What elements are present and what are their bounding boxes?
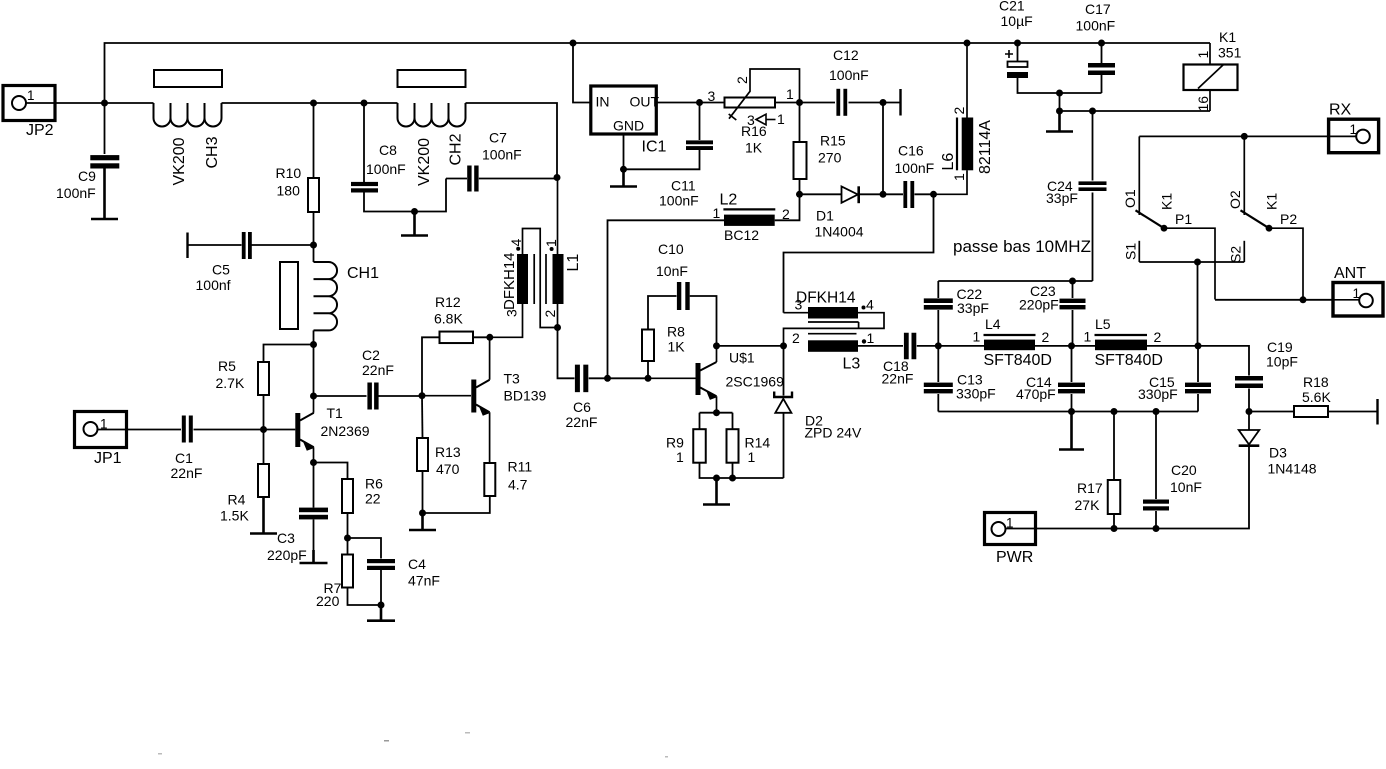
node T1 collector/C2 bbox=[310, 393, 317, 400]
wire C10 to collector node bbox=[690, 296, 717, 346]
inductor L4 SFT840D bbox=[938, 316, 1052, 369]
svg-text:L3: L3 bbox=[843, 356, 861, 373]
resistor R4 bbox=[258, 464, 269, 497]
wire rail to C20 bbox=[1155, 412, 1157, 500]
node C23 top bbox=[1069, 278, 1076, 285]
transistor T1 2N2369 bbox=[264, 396, 370, 463]
svg-text:1: 1 bbox=[973, 329, 981, 345]
svg-text:T3: T3 bbox=[504, 371, 521, 387]
wire C18 right bbox=[917, 345, 939, 347]
node C6/L2wire bbox=[604, 375, 611, 382]
voltage regulator IC1 bbox=[591, 86, 667, 156]
diode D1 1N4004 bbox=[815, 186, 864, 239]
node C19/D3/R18 bbox=[1246, 408, 1253, 415]
svg-text:16: 16 bbox=[1195, 96, 1211, 112]
svg-text:1N4004: 1N4004 bbox=[815, 224, 864, 240]
wire C12 node down to D1 node bbox=[882, 103, 884, 195]
capacitor C1 bbox=[182, 416, 186, 443]
wire node to R5 bbox=[264, 345, 314, 363]
svg-text:C17: C17 bbox=[1085, 1, 1111, 17]
wire OUT to C11 bbox=[699, 103, 701, 141]
wire R13 bottom bbox=[422, 471, 424, 513]
wire R18 right bbox=[1328, 411, 1377, 413]
svg-text:33pF: 33pF bbox=[1046, 190, 1078, 206]
node bus/C21 bbox=[1014, 40, 1021, 47]
wire R12 to collector node bbox=[473, 336, 490, 338]
resistor R6 bbox=[342, 479, 353, 513]
svg-text:100nF: 100nF bbox=[56, 185, 96, 201]
node R15/L2/D1 bbox=[796, 191, 803, 198]
wire to C7 bbox=[446, 178, 467, 180]
svg-text:22nF: 22nF bbox=[566, 414, 598, 430]
wire top supply bus bbox=[105, 43, 1211, 103]
wire C16 node to L3 pin3 bbox=[784, 194, 934, 312]
svg-text:R12: R12 bbox=[435, 294, 461, 310]
ground under C8 bbox=[401, 212, 428, 236]
resistor R9 bbox=[693, 429, 706, 463]
svg-text:4: 4 bbox=[866, 297, 874, 313]
svg-text:C21: C21 bbox=[999, 0, 1025, 14]
node D1/C16 bbox=[880, 191, 887, 198]
node bottom rail ground bbox=[1068, 408, 1075, 415]
svg-text:47nF: 47nF bbox=[408, 573, 440, 589]
wire C24 bottom riser bbox=[1092, 193, 1094, 282]
node bus/IC1 bbox=[570, 40, 577, 47]
svg-text:L2: L2 bbox=[720, 192, 738, 209]
wire to C9 bbox=[104, 103, 106, 154]
wire bus to C17 bbox=[1101, 43, 1103, 63]
wire R17 bottom bbox=[1113, 514, 1115, 529]
capacitor C4 bbox=[367, 559, 395, 563]
svg-text:D3: D3 bbox=[1269, 445, 1287, 461]
wire to R8 node bbox=[608, 377, 649, 379]
resistor R10 bbox=[308, 178, 319, 212]
wire base node to R4 bbox=[263, 430, 265, 465]
node R7/C4/ground bbox=[378, 602, 385, 609]
connector RX bbox=[1329, 102, 1379, 153]
svg-text:IC1: IC1 bbox=[642, 139, 667, 156]
svg-text:82114A: 82114A bbox=[977, 120, 994, 174]
node C7/L1 bbox=[554, 174, 561, 181]
node IC1 gnd/C11 bbox=[620, 166, 627, 173]
wire R8 bottom bbox=[647, 361, 649, 378]
svg-text:1: 1 bbox=[713, 205, 721, 221]
node U$1 emitter bbox=[713, 409, 720, 416]
capacitor C13 bbox=[924, 383, 953, 387]
svg-text:GND: GND bbox=[613, 118, 644, 134]
svg-text:D1: D1 bbox=[816, 208, 834, 224]
capacitor C15 bbox=[1185, 383, 1211, 387]
wire C2 to T3 base node bbox=[379, 395, 423, 397]
node C20 top bbox=[1153, 408, 1160, 415]
svg-text:2: 2 bbox=[542, 310, 558, 318]
wire node to R7 bbox=[347, 538, 349, 555]
svg-text:passe bas 10MHZ: passe bas 10MHZ bbox=[953, 237, 1091, 256]
svg-text:330pF: 330pF bbox=[956, 386, 996, 402]
svg-text:1: 1 bbox=[1084, 329, 1092, 345]
capacitor C5 bbox=[242, 232, 246, 259]
wire R16 node to R15 bbox=[799, 103, 801, 143]
node relay line bbox=[1056, 108, 1063, 115]
capacitor C9 bbox=[90, 155, 119, 160]
ground under IC1 bbox=[610, 169, 637, 186]
node L1 pin2 bbox=[554, 324, 561, 331]
ground under filter bbox=[1059, 412, 1084, 450]
svg-text:100nF: 100nF bbox=[659, 193, 699, 209]
wire C3 to ground bbox=[313, 520, 315, 564]
wire to C8 bbox=[363, 103, 365, 183]
svg-text:R8: R8 bbox=[667, 324, 685, 340]
transformer L3 DFKH14 bbox=[784, 290, 885, 373]
wire L3 node to D2 bbox=[783, 346, 785, 396]
capacitor C17 bbox=[1088, 63, 1115, 68]
wire RX line bbox=[1139, 135, 1328, 137]
capacitor C21 electrolytic bbox=[1005, 50, 1028, 78]
svg-text:C16: C16 bbox=[898, 143, 924, 159]
wire D2 bottom bbox=[783, 413, 785, 478]
inductor L5 SFT840D bbox=[1084, 316, 1163, 369]
connector JP2 bbox=[3, 86, 55, 140]
wire emitter to C3 bbox=[313, 463, 315, 508]
wire ANT line bbox=[1215, 299, 1333, 301]
svg-text:S1: S1 bbox=[1123, 243, 1139, 260]
svg-text:JP2: JP2 bbox=[26, 122, 54, 139]
svg-text:2N2369: 2N2369 bbox=[321, 423, 370, 439]
svg-text:R13: R13 bbox=[435, 444, 461, 460]
svg-text:P2: P2 bbox=[1280, 211, 1297, 227]
ground under C21/C17 bbox=[1046, 111, 1073, 132]
svg-text:K1: K1 bbox=[1159, 193, 1175, 210]
svg-text:SFT840D: SFT840D bbox=[984, 352, 1052, 369]
wire collector rail bbox=[313, 345, 315, 397]
connector PWR bbox=[985, 513, 1036, 567]
node C8 top bbox=[361, 100, 368, 107]
svg-text:270: 270 bbox=[818, 150, 842, 166]
svg-text:2: 2 bbox=[792, 330, 800, 346]
relay contact S2 bbox=[1228, 241, 1245, 263]
svg-text:10nF: 10nF bbox=[656, 263, 688, 279]
svg-text:C6: C6 bbox=[573, 399, 591, 415]
svg-text:220pF: 220pF bbox=[267, 547, 307, 563]
svg-text:5.6K: 5.6K bbox=[1302, 389, 1331, 405]
terminal pin after C12 bbox=[899, 89, 901, 116]
node R13/R11/ground bbox=[419, 510, 426, 517]
svg-text:C11: C11 bbox=[671, 178, 696, 194]
svg-text:1: 1 bbox=[748, 449, 756, 465]
inductor L6 82114A bbox=[934, 43, 995, 194]
svg-text:100nF: 100nF bbox=[482, 147, 522, 163]
capacitor C6 bbox=[575, 365, 580, 393]
svg-text:1.5K: 1.5K bbox=[220, 508, 249, 524]
node R17 top bbox=[1111, 408, 1118, 415]
wire R7 bottom bbox=[348, 588, 382, 606]
svg-text:2: 2 bbox=[734, 76, 750, 84]
svg-text:2: 2 bbox=[1154, 329, 1162, 345]
svg-text:C8: C8 bbox=[379, 142, 397, 158]
capacitor C11 bbox=[686, 140, 713, 144]
svg-text:R4: R4 bbox=[228, 492, 246, 508]
svg-text:R17: R17 bbox=[1077, 480, 1103, 496]
node ANT/P2 bbox=[1300, 296, 1307, 303]
node U$1 collector bbox=[713, 342, 720, 349]
svg-text:CH2: CH2 bbox=[448, 133, 465, 165]
svg-text:R15: R15 bbox=[820, 133, 846, 149]
wire C15 top bbox=[1197, 346, 1199, 382]
wire to terminal bbox=[883, 102, 900, 104]
svg-text:O2: O2 bbox=[1227, 190, 1243, 209]
svg-text:1: 1 bbox=[543, 239, 559, 247]
wire L5 right bbox=[1147, 345, 1198, 347]
node RX/O2 bbox=[1241, 133, 1248, 140]
svg-text:22nF: 22nF bbox=[171, 465, 203, 481]
node bus/L6 bbox=[964, 40, 971, 47]
svg-text:100nF: 100nF bbox=[895, 160, 935, 176]
node T3 base bbox=[419, 392, 426, 399]
inductor CH2 coil bbox=[398, 103, 466, 127]
svg-text:DFKH14: DFKH14 bbox=[501, 252, 518, 310]
wire R8 top to C10 bbox=[648, 296, 677, 330]
wire L2 pin1 down to C6 node bbox=[608, 220, 725, 378]
wire C4 to ground node bbox=[380, 570, 382, 605]
node S line bbox=[1194, 259, 1201, 266]
wire R5 to base node bbox=[263, 395, 265, 430]
wire into CH1 bbox=[313, 245, 315, 262]
ground under R13 bbox=[409, 513, 436, 530]
svg-text:22: 22 bbox=[365, 491, 381, 507]
transistor U$1 2SC1969 bbox=[648, 346, 784, 413]
wire R10 to CH1 bbox=[313, 212, 315, 245]
node R17/PWR bbox=[1111, 525, 1118, 532]
node emitter ground bbox=[713, 475, 720, 482]
node T1 emitter bbox=[310, 459, 317, 466]
node R12/L1/T3 collector bbox=[486, 334, 493, 341]
wire C5 to node bbox=[251, 244, 313, 246]
svg-text:22nF: 22nF bbox=[882, 371, 914, 387]
node R8/base bbox=[645, 375, 652, 382]
svg-text:27K: 27K bbox=[1075, 497, 1101, 513]
wire emitter to R6 bbox=[314, 463, 348, 480]
capacitor C3 bbox=[299, 508, 328, 513]
wire C8 bottom bbox=[364, 179, 446, 212]
svg-text:10pF: 10pF bbox=[1266, 354, 1298, 370]
wire filter top rail bbox=[938, 280, 1092, 282]
inductor L2 BC12 bbox=[713, 192, 791, 244]
wire L3 to C18 bbox=[858, 345, 903, 347]
wire C6 right bbox=[589, 377, 608, 379]
node C24/relay line bbox=[1089, 108, 1096, 115]
resistor R13 bbox=[417, 438, 428, 471]
resistor R7 bbox=[342, 555, 353, 588]
svg-text:180: 180 bbox=[277, 183, 301, 199]
wire S node to main line bbox=[1197, 262, 1199, 346]
svg-text:R11: R11 bbox=[508, 459, 533, 475]
wire C13 top bbox=[937, 346, 939, 382]
resistor R12 bbox=[440, 332, 474, 344]
node C16/L6 bbox=[930, 191, 937, 198]
capacitor C18 bbox=[904, 333, 909, 360]
wire node to R12 bbox=[422, 337, 440, 395]
wire C13 bottom bbox=[937, 394, 939, 412]
wire C22 bottom bbox=[937, 310, 939, 346]
wire to K1 pin16 bbox=[1060, 110, 1211, 112]
wire JP1 to C1 bbox=[127, 429, 182, 431]
svg-text:VK200: VK200 bbox=[171, 137, 188, 185]
svg-text:10µF: 10µF bbox=[1001, 13, 1033, 29]
wire CH2 to C7 node bbox=[466, 103, 558, 178]
node C18/filter bbox=[935, 342, 942, 349]
wire C14 bottom bbox=[1071, 394, 1073, 412]
speck marks bbox=[158, 753, 162, 755]
wire C7 to L1 node bbox=[479, 178, 557, 180]
relay coil K1 bbox=[1184, 29, 1242, 112]
wire R11 bottom to node bbox=[423, 496, 490, 513]
svg-text:R18: R18 bbox=[1303, 374, 1329, 390]
relay contact S1 bbox=[1123, 241, 1140, 262]
svg-text:220pF: 220pF bbox=[1019, 297, 1059, 313]
svg-text:220: 220 bbox=[316, 593, 340, 609]
resistor R11 bbox=[484, 463, 495, 496]
wire IC1 GND bbox=[623, 134, 625, 169]
svg-text:T1: T1 bbox=[327, 405, 344, 421]
svg-text:4.7: 4.7 bbox=[508, 477, 528, 493]
wire to R18 bbox=[1249, 411, 1294, 413]
wire to D1 bbox=[800, 193, 842, 195]
svg-text:C3: C3 bbox=[277, 530, 295, 546]
ground under C9 bbox=[91, 169, 118, 220]
capacitor C7 bbox=[467, 166, 471, 192]
node C8 ground bbox=[411, 208, 418, 215]
svg-text:DFKH14: DFKH14 bbox=[796, 290, 856, 307]
svg-text:100nf: 100nf bbox=[196, 277, 231, 293]
wire C23 bottom bbox=[1072, 310, 1074, 346]
capacitor C12 bbox=[836, 89, 840, 116]
svg-text:IN: IN bbox=[596, 94, 610, 110]
wire IC1 OUT bbox=[657, 102, 700, 104]
wire R6 to R7 bbox=[347, 513, 349, 538]
node C12/terminal bbox=[880, 99, 887, 106]
resistor R18 bbox=[1294, 406, 1328, 417]
svg-text:100nF: 100nF bbox=[1076, 18, 1116, 34]
terminal pin C5 input bbox=[186, 233, 188, 259]
wire C20 bottom bbox=[1155, 511, 1157, 529]
svg-text:C4: C4 bbox=[408, 556, 426, 572]
wire C1 to base node bbox=[194, 429, 264, 431]
wire bus to IC1 IN bbox=[573, 43, 591, 103]
svg-text:JP1: JP1 bbox=[94, 450, 122, 467]
resistor R14 bbox=[727, 429, 739, 463]
node R10/C5/CH1 bbox=[310, 242, 317, 249]
node R14 bottom bbox=[729, 475, 736, 482]
svg-text:K1: K1 bbox=[1219, 29, 1236, 45]
capacitor C20 bbox=[1143, 500, 1169, 504]
node R6/R7/C4 bbox=[344, 535, 351, 542]
relay contact O1/P1 bbox=[1122, 136, 1215, 299]
svg-text:VK200: VK200 bbox=[416, 138, 433, 186]
svg-text:K1: K1 bbox=[1264, 193, 1280, 210]
ground under R9/R14 bbox=[703, 478, 730, 505]
svg-text:1: 1 bbox=[1353, 286, 1361, 301]
svg-text:1: 1 bbox=[867, 330, 875, 346]
node C20/PWR bbox=[1153, 525, 1160, 532]
wire C14 top bbox=[1071, 346, 1073, 382]
relay contact O2/P2 bbox=[1227, 136, 1303, 299]
svg-text:CH3: CH3 bbox=[204, 136, 221, 168]
svg-text:1: 1 bbox=[1195, 51, 1211, 59]
svg-text:CH1: CH1 bbox=[347, 265, 379, 282]
wire terminal to C5 bbox=[188, 244, 242, 246]
wire C12 right bbox=[849, 102, 884, 104]
svg-text:1: 1 bbox=[1350, 122, 1358, 137]
svg-text:1K: 1K bbox=[668, 339, 686, 355]
inductor CH1 coil bbox=[314, 262, 338, 330]
potentiometer R16 bbox=[700, 69, 800, 156]
svg-text:R5: R5 bbox=[218, 358, 236, 374]
svg-text:L6: L6 bbox=[940, 153, 957, 171]
diode D3 1N4148 bbox=[1239, 430, 1317, 477]
svg-text:ZPD 24V: ZPD 24V bbox=[805, 425, 862, 441]
capacitor C10 bbox=[677, 282, 681, 310]
svg-text:C20: C20 bbox=[1171, 462, 1197, 478]
capacitor C16 bbox=[903, 181, 907, 208]
wire D1 to C16 bbox=[860, 193, 883, 195]
capacitor C19 bbox=[1235, 376, 1263, 381]
inductor CH3 coil bbox=[154, 103, 222, 127]
ground under C4 bbox=[367, 605, 395, 621]
svg-text:BD139: BD139 bbox=[504, 388, 547, 404]
node bus/C17 bbox=[1098, 40, 1105, 47]
svg-text:22nF: 22nF bbox=[362, 362, 394, 378]
svg-text:U$1: U$1 bbox=[729, 350, 755, 366]
svg-text:4: 4 bbox=[508, 239, 524, 247]
svg-text:P1: P1 bbox=[1175, 211, 1192, 227]
svg-text:2: 2 bbox=[1042, 329, 1050, 345]
svg-text:1: 1 bbox=[1006, 516, 1014, 531]
svg-text:470pF: 470pF bbox=[1016, 386, 1056, 402]
wire L4 to L5 bbox=[1035, 345, 1095, 347]
connector JP1 bbox=[75, 412, 127, 468]
node R10 top bbox=[310, 100, 317, 107]
svg-text:1: 1 bbox=[951, 173, 967, 181]
svg-text:L4: L4 bbox=[985, 316, 1001, 332]
wire C11 to ground node bbox=[624, 150, 700, 169]
resistor R17 bbox=[1108, 480, 1121, 514]
wire C15 bottom bbox=[1197, 394, 1199, 412]
svg-text:3: 3 bbox=[708, 88, 716, 104]
node CH1/R5/T1 bbox=[310, 341, 317, 348]
wire R9/R14 bottoms bbox=[700, 463, 784, 478]
node L5/C15/switch bbox=[1195, 342, 1202, 349]
svg-text:C10: C10 bbox=[658, 241, 684, 257]
svg-text:2: 2 bbox=[951, 107, 967, 115]
zener diode D2 ZPD24V bbox=[774, 392, 862, 441]
wire C17 bottom bbox=[1101, 75, 1103, 93]
capacitor C22 bbox=[924, 298, 953, 303]
node R16 pin1/C12/R15 bbox=[796, 99, 803, 106]
wire R14 bottom bbox=[732, 463, 734, 478]
wire C23 top bbox=[1072, 281, 1074, 298]
svg-text:1: 1 bbox=[676, 449, 684, 465]
node L4/L5 bbox=[1068, 342, 1075, 349]
wire collector to L3 node bbox=[717, 345, 784, 347]
node C21/C17 gnd bbox=[1056, 90, 1063, 97]
svg-text:C7: C7 bbox=[489, 130, 507, 146]
svg-text:ANT: ANT bbox=[1334, 265, 1366, 282]
svg-text:1K: 1K bbox=[745, 140, 763, 156]
wire node to C4 bbox=[348, 538, 382, 559]
ground under R4 bbox=[250, 497, 277, 534]
wire CH3 to CH2 bbox=[222, 102, 398, 104]
wire S1-S2 line bbox=[1139, 261, 1244, 263]
